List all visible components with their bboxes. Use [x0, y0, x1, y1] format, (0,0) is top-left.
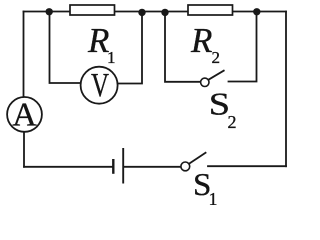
- svg-text:1: 1: [209, 189, 218, 205]
- label S1: [193, 166, 218, 209]
- wire left rail upper segment: [23, 12, 25, 98]
- battery: [113, 148, 123, 184]
- wire left rail lower segment: [23, 132, 25, 167]
- svg-text:1: 1: [107, 48, 116, 67]
- voltmeter V: [81, 67, 118, 104]
- svg-text:V: V: [91, 67, 109, 104]
- node junction dot right of R2: [253, 8, 260, 15]
- label R2: [190, 21, 220, 67]
- label S2: [209, 85, 237, 132]
- resistor R1: [70, 5, 115, 15]
- svg-text:A: A: [12, 96, 37, 133]
- label R1: [87, 21, 116, 67]
- wire voltmeter branch right riser: [118, 12, 143, 84]
- switch S1: [181, 152, 206, 171]
- wire bottom rail left segment: [24, 166, 113, 168]
- wire voltmeter branch left drop: [50, 12, 81, 83]
- wire right rail: [285, 12, 287, 167]
- wire S2 branch right riser: [229, 12, 257, 82]
- node junction dot left of R1: [46, 8, 53, 15]
- wire top rail: [24, 11, 287, 13]
- wire bottom rail middle segment: [124, 166, 181, 168]
- svg-text:2: 2: [212, 48, 221, 67]
- wire bottom rail right segment: [208, 165, 286, 167]
- wire S2 branch left drop: [165, 12, 201, 82]
- switch S2: [201, 70, 225, 86]
- node junction dot left of R2: [161, 9, 168, 16]
- resistor R2: [188, 5, 233, 15]
- svg-text:R: R: [190, 21, 212, 60]
- svg-text:2: 2: [228, 112, 237, 132]
- ammeter A: [7, 96, 42, 133]
- node junction dot right of R1: [138, 9, 145, 16]
